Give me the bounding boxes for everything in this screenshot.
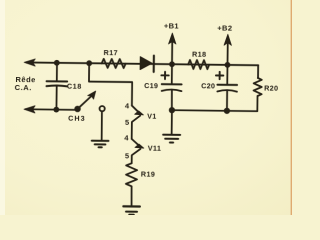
switch CH3 — [68, 91, 105, 123]
svg-text:+B2: +B2 — [217, 23, 232, 32]
svg-text:C18: C18 — [67, 82, 82, 91]
node: ground junction under C19 — [169, 107, 175, 113]
svg-text:C19: C19 — [144, 81, 158, 90]
svg-text:CH3: CH3 — [68, 114, 86, 123]
heater V1 (filament arrow with pins 4,5) — [125, 101, 157, 139]
resistor R19 — [126, 163, 155, 186]
switch arm wire — [78, 96, 92, 109]
node: C18 top junction — [54, 60, 60, 66]
svg-text:R19: R19 — [141, 169, 155, 178]
label: Rede C.A. — [15, 75, 36, 92]
svg-text:5: 5 — [125, 118, 129, 127]
resistor R18 — [188, 50, 209, 70]
wire: switch contact to ground — [101, 112, 103, 140]
wire: bottom ground rail — [172, 110, 257, 111]
right page edge strip — [291, 0, 292, 215]
supply arrow +B1 — [163, 21, 178, 64]
node: C18 bottom junction — [53, 107, 59, 113]
left paper edge highlight — [0, 0, 5, 215]
resistor R17 — [102, 48, 126, 68]
node: C20 bottom junction — [224, 108, 230, 114]
svg-text:C.A.: C.A. — [15, 83, 33, 92]
capacitor C20 — [201, 65, 237, 111]
diode D1 — [140, 55, 154, 72]
svg-text:V1: V1 — [147, 112, 157, 121]
svg-text:R20: R20 — [264, 83, 278, 92]
wire: top AC/B+ bus — [26, 62, 258, 65]
svg-text:R17: R17 — [104, 48, 118, 57]
ground (below C19 rail) — [163, 110, 180, 143]
node: R17 left / heater tap junction — [86, 60, 92, 66]
wire: lower-left AC wire — [26, 108, 79, 111]
switch arm arrowhead — [88, 91, 96, 99]
supply arrow +B2 — [217, 23, 233, 65]
terminal arrow: AC line lower — [24, 106, 35, 113]
ground (below CH3 contact) — [92, 141, 109, 148]
wire: R20 bottom to rail — [256, 96, 258, 111]
svg-text:R18: R18 — [192, 50, 206, 59]
resistor R20 — [254, 78, 279, 96]
svg-text:V11: V11 — [148, 144, 162, 153]
svg-text:5: 5 — [125, 151, 129, 160]
switch contact circle — [100, 106, 105, 111]
node: switch pole junction — [74, 106, 80, 112]
capacitor C19 — [144, 64, 182, 110]
svg-text:+B1: +B1 — [164, 21, 179, 30]
node B1 — [169, 61, 175, 67]
wire: tap from R17-left down to heater chain — [89, 63, 133, 105]
wire: R19 to ground — [130, 186, 132, 206]
capacitor C18 — [46, 63, 82, 110]
wire: R20 top feed — [257, 65, 259, 78]
heater V11 (filament arrow with pins 4,5) — [124, 133, 162, 163]
terminal arrow: AC line upper — [24, 59, 35, 66]
node B2 — [225, 62, 231, 68]
ground (below R19) — [123, 206, 140, 215]
svg-text:C20: C20 — [201, 81, 215, 90]
